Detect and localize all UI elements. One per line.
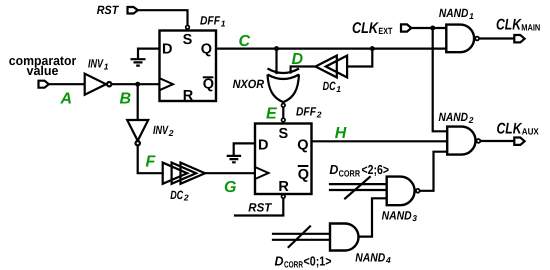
clock triangle DFF1	[160, 78, 174, 90]
wire node H: DFF2 Q to NAND2 middle input	[312, 140, 448, 142]
input tag comparator value (node A)	[39, 81, 49, 88]
svg-text:D: D	[258, 138, 268, 154]
input tag CLK_EXT	[401, 24, 411, 31]
svg-text:CORR: CORR	[284, 259, 303, 269]
wire NXOR left input from node C	[275, 49, 277, 73]
svg-text:2: 2	[468, 115, 474, 125]
svg-text:2: 2	[168, 128, 174, 138]
bubble NAND1	[475, 37, 479, 41]
wire DFF2 D to ground	[234, 143, 255, 155]
wire bus D_CORR<2;6> to NAND3 inputs	[330, 184, 387, 190]
svg-text:B: B	[120, 91, 132, 108]
svg-text:DFF: DFF	[200, 14, 221, 28]
ground at DFF2 D	[227, 156, 241, 162]
bubble DFF1 S input	[186, 25, 190, 29]
wire node B: INV1 output to DFF1 clock	[111, 83, 159, 85]
svg-text:AUX: AUX	[522, 126, 539, 136]
inverter INV2	[127, 120, 148, 141]
wire CLK_EXT branch down to NAND2 top input	[433, 28, 448, 131]
svg-text:S: S	[278, 126, 288, 142]
wire node G: DC2 output to DFF2 clock	[205, 172, 255, 174]
svg-text:Q: Q	[201, 42, 212, 58]
svg-text:<2;6>: <2;6>	[362, 162, 390, 177]
wire NAND4 output up to NAND3 third input	[359, 198, 387, 236]
bubble NXOR output	[282, 104, 286, 108]
svg-text:NAND: NAND	[382, 208, 412, 222]
svg-text:CLK: CLK	[497, 120, 523, 137]
bus slash for D_CORR<0;1>	[289, 226, 310, 247]
wire node C branch down to DC1 input	[347, 49, 372, 67]
nand gate NAND3	[387, 177, 415, 206]
svg-text:E: E	[266, 106, 278, 123]
nand gate NAND2	[447, 127, 475, 155]
svg-text:R: R	[183, 88, 194, 104]
xnor gate NXOR (pointing down)	[268, 69, 300, 103]
wire node E: NXOR output bubble to DFF2 S bubble	[282, 108, 284, 118]
svg-text:1: 1	[469, 11, 474, 21]
svg-text:RST: RST	[97, 3, 120, 17]
junction node C at NXOR branch	[274, 46, 279, 51]
junction CLK_EXT branch	[430, 26, 435, 31]
flip-flop DFF2	[255, 124, 312, 195]
wire NAND2 output to CLK_AUX	[480, 140, 514, 142]
svg-text:3: 3	[412, 213, 417, 223]
output tag CLK_AUX	[514, 138, 524, 145]
svg-text:H: H	[335, 125, 347, 142]
svg-text:DC: DC	[170, 188, 183, 202]
svg-text:2: 2	[316, 110, 322, 120]
bubble NAND3	[416, 189, 420, 193]
svg-text:1: 1	[336, 84, 341, 94]
svg-text:Q: Q	[203, 76, 214, 92]
svg-text:EXT: EXT	[378, 26, 392, 36]
bubble INV1	[107, 82, 111, 86]
bubble DFF2 R input	[282, 195, 286, 199]
svg-text:RST: RST	[248, 201, 273, 215]
wire INV2 output down to DC2 input	[138, 145, 163, 173]
svg-text:INV: INV	[88, 57, 104, 71]
delay chain DC2	[163, 163, 205, 184]
svg-text:4: 4	[385, 255, 391, 265]
svg-text:D: D	[292, 51, 304, 68]
flip-flop DFF1	[160, 31, 217, 102]
svg-text:1: 1	[104, 61, 109, 71]
svg-text:CORR: CORR	[339, 169, 361, 179]
svg-text:NAND: NAND	[439, 110, 469, 124]
wire comparator input to INV1	[49, 83, 85, 85]
svg-text:D: D	[329, 162, 339, 177]
svg-text:C: C	[239, 33, 251, 50]
wire CLK_EXT to NAND1 top input	[411, 27, 446, 29]
output tag CLK_MAIN	[514, 35, 524, 42]
junction node B	[135, 82, 140, 87]
svg-text:R: R	[278, 179, 289, 195]
wire node C: DFF1 Q to NAND1 bottom input	[216, 47, 446, 49]
svg-text:S: S	[183, 32, 193, 48]
wire NAND1 output to CLK_MAIN	[479, 37, 514, 39]
svg-text:MAIN: MAIN	[521, 23, 540, 33]
delay chain DC1	[316, 56, 348, 78]
svg-text:DC: DC	[323, 79, 336, 93]
svg-text:D: D	[162, 42, 172, 58]
svg-text:CLK: CLK	[496, 17, 522, 34]
svg-text:NAND: NAND	[355, 250, 385, 264]
svg-text:Q: Q	[297, 138, 308, 154]
svg-text:CLK: CLK	[352, 20, 379, 37]
wire NAND3 output up to NAND2 bottom input	[420, 152, 447, 191]
bubble INV2	[136, 141, 140, 145]
and gate NAND4	[330, 224, 359, 251]
svg-text:NXOR: NXOR	[233, 77, 265, 91]
svg-text:2: 2	[183, 193, 189, 203]
input tag RST	[128, 7, 138, 14]
svg-text:1: 1	[221, 18, 226, 28]
wire bus D_CORR<0;1> to NAND4 inputs	[273, 234, 330, 240]
bubble NAND2	[477, 139, 481, 143]
wire node D: DC1 output to NXOR right input	[291, 67, 316, 73]
bus slash for D_CORR<2;6>	[345, 177, 370, 199]
svg-text:NAND: NAND	[439, 6, 469, 20]
wire RST to DFF1 S	[138, 10, 188, 24]
inverter INV1	[85, 74, 106, 95]
svg-text:value: value	[27, 63, 59, 78]
svg-text:DFF: DFF	[296, 105, 317, 119]
svg-text:<0;1>: <0;1>	[304, 253, 332, 268]
clock triangle DFF2	[255, 167, 269, 179]
wire DFF1 D to ground	[138, 49, 160, 59]
svg-text:INV: INV	[153, 123, 169, 137]
junction node C at DC1 branch	[370, 46, 375, 51]
svg-text:G: G	[224, 179, 236, 196]
wire DFF2 R bubble to RST	[235, 199, 283, 216]
ground at DFF1 D	[131, 59, 146, 65]
svg-text:D: D	[275, 253, 285, 268]
svg-text:A: A	[60, 91, 73, 108]
nand gate NAND1	[446, 25, 474, 53]
wire node B branch down to INV2	[137, 84, 139, 120]
svg-text:F: F	[146, 154, 157, 171]
svg-text:Q: Q	[298, 167, 309, 183]
bubble DFF2 S input	[282, 118, 286, 122]
